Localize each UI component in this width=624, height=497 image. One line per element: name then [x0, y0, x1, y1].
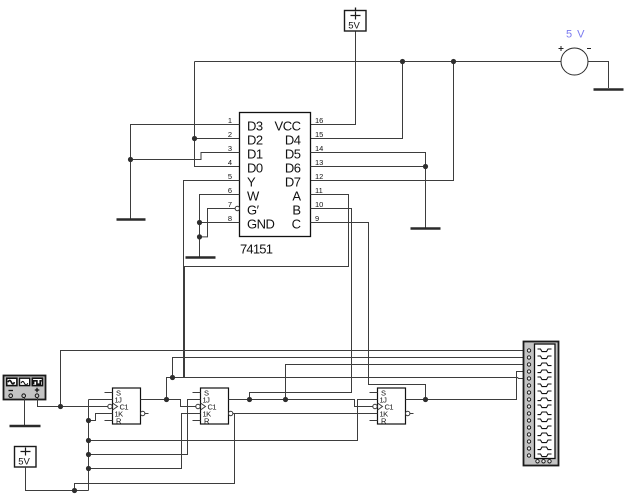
wire D2 pin2 — [195, 138, 240, 140]
node Q2-ch3 — [283, 397, 288, 402]
pin stub R U4A — [193, 420, 201, 422]
svg-text:7: 7 — [228, 200, 232, 209]
wire node A to FF1 Q — [167, 378, 173, 400]
node D3/D1 gnd — [128, 157, 133, 162]
wire rail drop to D0/D2 — [195, 62, 240, 167]
pin stub R U5A — [370, 420, 378, 422]
svg-text:5: 5 — [228, 172, 232, 181]
node rail-D4 — [400, 59, 405, 64]
svg-text:R: R — [116, 417, 122, 426]
logic analyzer XLA1 — [524, 342, 559, 466]
pin stub S U5A — [370, 392, 378, 394]
svg-text:13: 13 — [315, 158, 323, 167]
node Q1 — [164, 397, 169, 402]
ground (below XFG1) — [10, 425, 41, 428]
function generator XFG1 — [4, 376, 46, 400]
wire FF3 Q to analyzer ch4 — [406, 372, 528, 400]
svg-text:G′: G′ — [247, 202, 260, 217]
wire bus to FF2 1J — [89, 400, 201, 455]
svg-text:15: 15 — [315, 130, 323, 139]
voltmeter U2 5V (top right) — [559, 29, 592, 76]
wire D5 pin14 to ground — [311, 153, 426, 228]
node bus-K1 — [86, 418, 91, 423]
wire V1 to bus — [26, 467, 89, 491]
svg-text:4: 4 — [228, 158, 232, 167]
svg-text:11: 11 — [315, 186, 323, 195]
svg-text:GND: GND — [247, 216, 275, 231]
wire W pin6 — [200, 195, 240, 257]
flip-flop U4A JK — [196, 388, 233, 426]
svg-text:D5: D5 — [285, 146, 301, 161]
svg-text:1: 1 — [228, 116, 232, 125]
wire FF1 Q to FF2 clock — [141, 400, 196, 407]
flip-flop U5A JK — [373, 388, 410, 426]
svg-text:14: 14 — [315, 144, 323, 153]
wire FF2 Q to FF3 clock — [229, 400, 373, 407]
svg-text:Y: Y — [247, 174, 256, 189]
pin stub R U3A — [105, 420, 113, 422]
svg-text:R: R — [204, 417, 210, 426]
svg-text:C: C — [292, 216, 301, 231]
pin stub Q' U3A — [145, 413, 149, 415]
flip-flop U3A JK — [108, 388, 145, 426]
node clock — [58, 404, 63, 409]
svg-text:2: 2 — [228, 130, 232, 139]
wire node A riser to analyzer ch2 — [173, 358, 528, 378]
wire Y pin5 down — [184, 181, 240, 378]
node bus-J2 — [86, 452, 91, 457]
wire D3 pin1 to ground — [131, 125, 240, 219]
svg-text:6: 6 — [228, 186, 232, 195]
wire +5V top rail — [195, 61, 562, 63]
wire select A pin11 route — [173, 195, 349, 378]
svg-text:W: W — [247, 188, 260, 203]
wire GND pin8 — [200, 222, 240, 224]
ground (left of IC) — [117, 218, 146, 221]
node D5/D6 — [423, 164, 428, 169]
svg-text:74151: 74151 — [240, 242, 273, 257]
wire voltmeter to ground — [588, 62, 609, 89]
wire FF2 Q branch to analyzer ch3 — [286, 365, 528, 400]
svg-text:9: 9 — [315, 214, 319, 223]
node D2 — [192, 136, 197, 141]
wire XFG1 + output clock line to FF1 — [38, 398, 108, 407]
inversion bubble pin7 G' — [235, 206, 239, 210]
pin stub Q' U5A — [410, 413, 414, 415]
svg-text:D0: D0 — [247, 160, 263, 175]
svg-text:D1: D1 — [247, 146, 263, 161]
node bus-K2 — [86, 466, 91, 471]
ground (top right) — [594, 88, 624, 91]
node A ch2 — [170, 375, 175, 380]
svg-text:D7: D7 — [285, 174, 301, 189]
node bus-5V — [72, 488, 77, 493]
pin stub S U3A — [105, 392, 113, 394]
wire bus to FF3 1J — [89, 400, 378, 441]
+5V vertical bus — [88, 400, 90, 491]
node G'/GND — [197, 234, 202, 239]
ground (below IC) — [186, 256, 216, 259]
ground (D5/D6) — [411, 227, 441, 230]
wire D6 pin13 — [311, 166, 426, 168]
svg-text:D3: D3 — [247, 118, 263, 133]
svg-text:B: B — [292, 202, 300, 217]
DC source V1 +5V (bottom) — [15, 447, 37, 468]
wire select B pin10 route — [250, 209, 352, 400]
svg-text:VCC: VCC — [275, 118, 301, 133]
wire D1 pin3 to ground node — [131, 153, 240, 160]
svg-text:A: A — [292, 188, 301, 203]
svg-text:16: 16 — [315, 116, 323, 125]
svg-text:D4: D4 — [285, 132, 301, 147]
svg-text:R: R — [381, 417, 387, 426]
DC source V2 +5V (top) — [345, 8, 367, 32]
node Q2-B — [247, 397, 252, 402]
svg-text:5 V: 5 V — [566, 29, 586, 41]
wire clock riser to analyzer ch1 — [61, 351, 528, 407]
wire rail drop to D7 pin12 — [311, 62, 454, 181]
svg-text:5V: 5V — [18, 457, 30, 468]
wire VCC pin16 to V2 — [311, 32, 356, 125]
wire bus riser to FF1 1J — [89, 399, 113, 401]
wire select C pin9 route — [311, 223, 426, 400]
wire rail drop to D4 pin15 — [311, 62, 403, 139]
wire FF2 Q' net riser to 5V — [75, 414, 235, 491]
svg-text:3: 3 — [228, 144, 232, 153]
node W/GND — [197, 220, 202, 225]
svg-text:12: 12 — [315, 172, 323, 181]
wire FF2 Q' to FF3 1K — [233, 413, 378, 415]
wire Y to analyzer ch5 — [184, 378, 528, 379]
wire bus to FF1 1K jog — [89, 414, 113, 421]
wire XFG1 common to ground — [24, 398, 26, 426]
wire G' pin7 jog — [200, 209, 236, 237]
svg-text:5V: 5V — [348, 21, 360, 32]
wire bus to FF2 1K — [89, 414, 201, 469]
svg-text:D2: D2 — [247, 132, 263, 147]
node rail-D7 — [451, 59, 456, 64]
svg-text:D6: D6 — [285, 160, 301, 175]
node Q3-C — [423, 397, 428, 402]
op IC U1 74151 multiplexer — [240, 113, 311, 257]
pin stub S U4A — [193, 392, 201, 394]
svg-text:10: 10 — [315, 200, 323, 209]
node bus-J3 — [86, 438, 91, 443]
svg-text:8: 8 — [228, 214, 232, 223]
